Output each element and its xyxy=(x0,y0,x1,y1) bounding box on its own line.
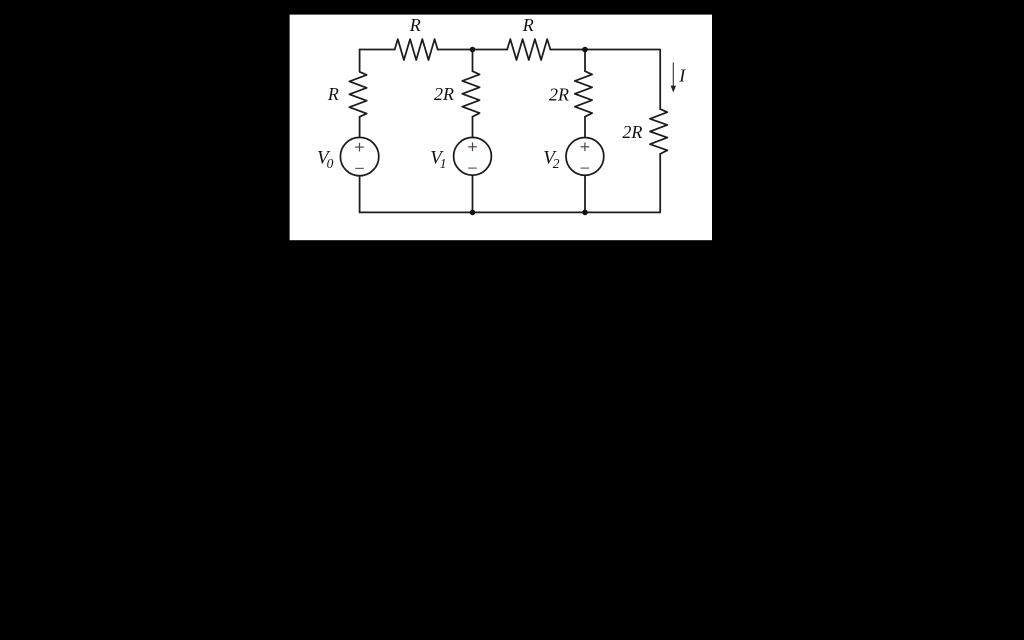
wire top rail left stub xyxy=(360,49,395,51)
node C junction dot (bottom, under V1) xyxy=(470,210,476,216)
wire right column below 2R to bottom corner xyxy=(659,154,661,213)
wire below source V1 to bottom rail xyxy=(472,175,474,212)
wire between 2R and source V2 xyxy=(584,117,586,138)
resistor R1 (top-left R) zigzag xyxy=(395,39,438,60)
voltage source V2 circle xyxy=(566,138,604,176)
current arrow I xyxy=(671,62,676,92)
svg-text:2R: 2R xyxy=(434,84,454,104)
V1 polarity minus sign xyxy=(468,167,477,169)
svg-text:2R: 2R xyxy=(622,122,642,142)
svg-text:R: R xyxy=(409,15,421,35)
svg-text:R: R xyxy=(522,15,534,35)
V2 polarity minus sign xyxy=(581,167,590,169)
white panel xyxy=(290,15,712,241)
svg-text:R: R xyxy=(327,84,339,104)
svg-text:I: I xyxy=(678,66,686,86)
wire below source V2 to bottom rail xyxy=(584,175,586,212)
wire left column top corner down xyxy=(359,50,361,72)
V2 polarity plus sign xyxy=(581,143,590,152)
wire top rail between R2 and node B xyxy=(550,49,585,51)
resistor R4a (middle 2R above V1) vertical zigzag xyxy=(462,71,479,117)
wire top rail right segment with corner down xyxy=(585,50,660,110)
resistor R2 (top-right R) zigzag xyxy=(507,39,550,60)
node A junction dot (top) xyxy=(470,47,476,53)
wire bottom rail left segment xyxy=(360,211,473,213)
wire bottom rail right segment xyxy=(585,211,660,213)
resistor R4b (right 2R above V2) vertical zigzag xyxy=(575,71,592,117)
wire from node A down to 2R xyxy=(472,50,474,72)
wire bottom rail middle segment xyxy=(473,211,586,213)
wire below source V0 to bottom rail xyxy=(359,176,361,213)
V1 polarity plus sign xyxy=(468,143,477,152)
resistor R3 (left R) vertical zigzag xyxy=(349,72,366,117)
node B junction dot (top) xyxy=(582,47,588,53)
wire top rail between node A and R2 xyxy=(473,49,508,51)
V0 polarity plus sign xyxy=(355,143,364,152)
node D junction dot (bottom, under V2) xyxy=(582,210,588,216)
wire between left R and source V0 xyxy=(359,117,361,138)
resistor R5 (load 2R) vertical zigzag xyxy=(650,109,667,154)
wire between 2R and source V1 xyxy=(472,117,474,138)
wire top rail between R1 and node A xyxy=(438,49,473,51)
V0 polarity minus sign xyxy=(355,167,364,169)
wire from node B down to 2R xyxy=(584,50,586,72)
svg-text:2R: 2R xyxy=(549,84,569,104)
voltage source V0 circle xyxy=(340,137,378,175)
voltage source V1 circle xyxy=(454,137,492,175)
